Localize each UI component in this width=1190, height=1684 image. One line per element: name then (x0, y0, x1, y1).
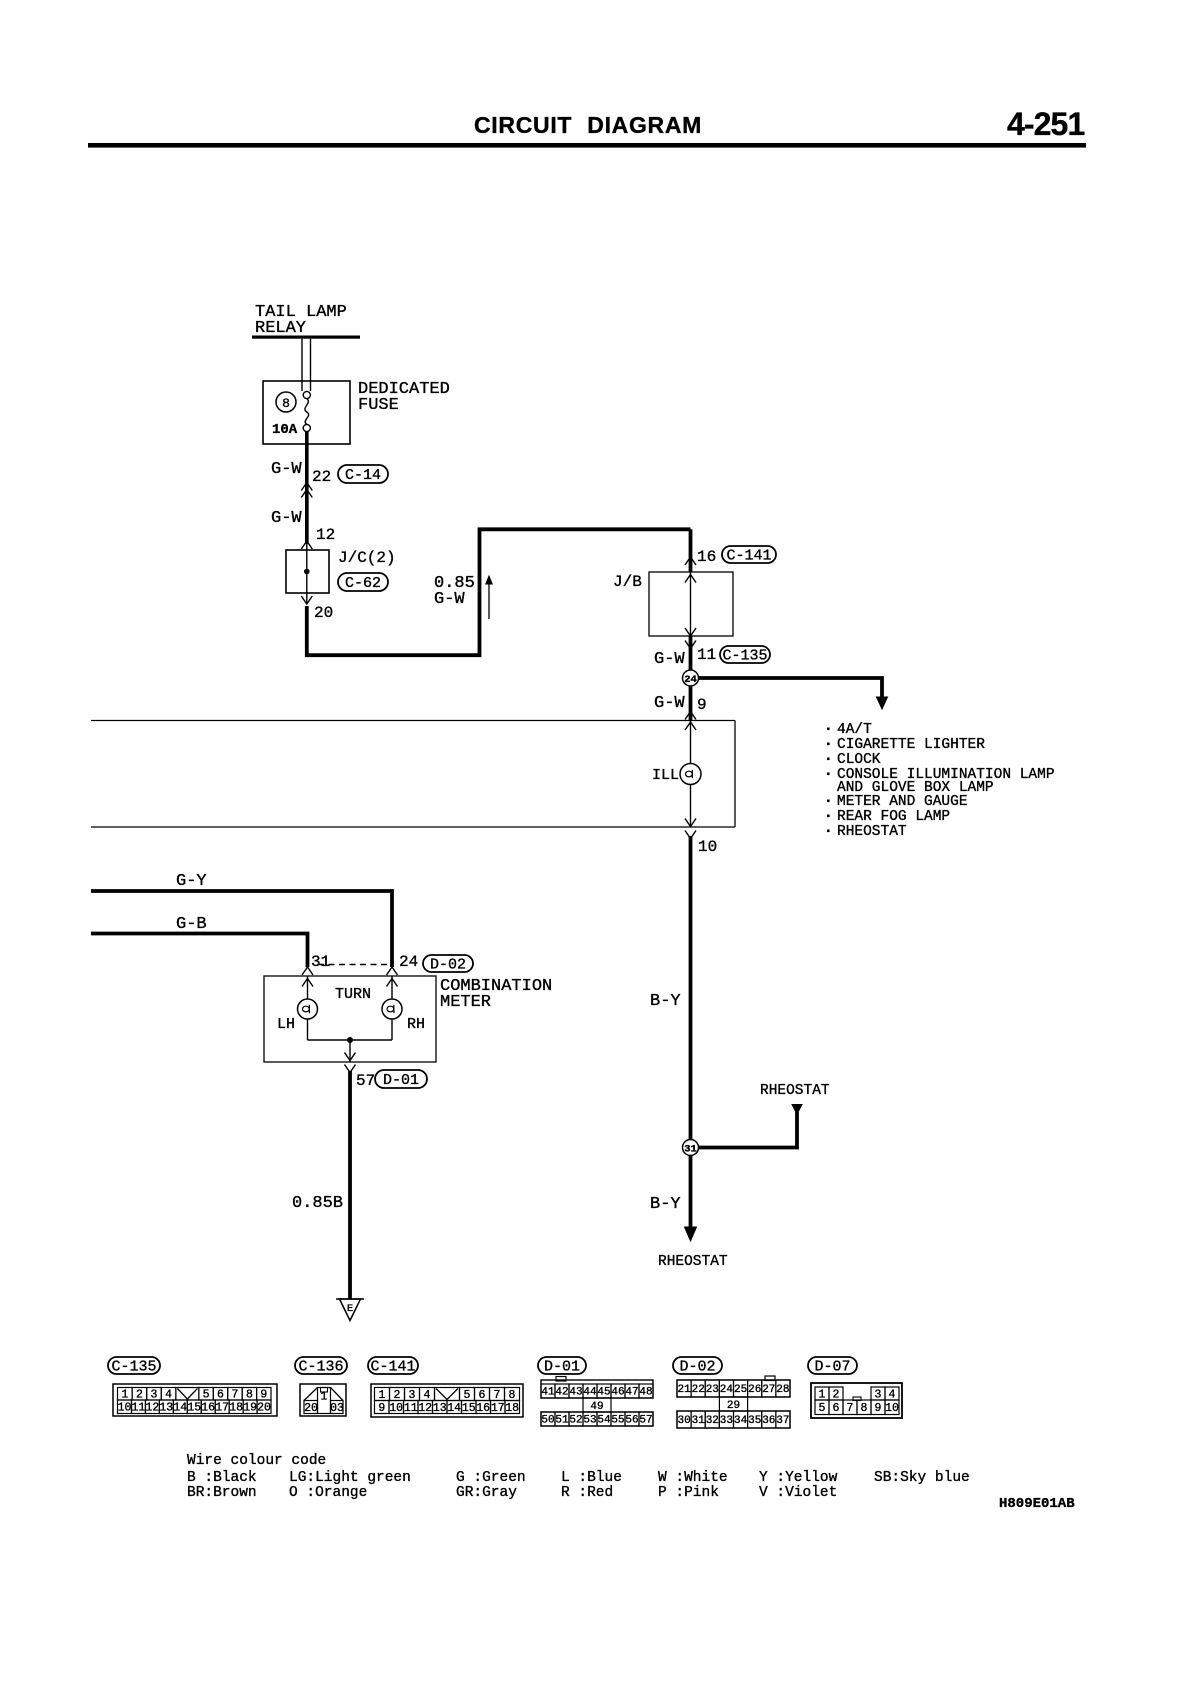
connector D-01 (375, 1070, 427, 1089)
svg-text:8: 8 (861, 1402, 868, 1415)
svg-text:27: 27 (762, 1384, 775, 1396)
svg-text:22: 22 (692, 1384, 705, 1396)
chevrons out of box pin 10 (685, 819, 696, 839)
connector C-135 label (108, 1357, 160, 1376)
svg-text:20: 20 (257, 1402, 271, 1415)
arrow to rheostat (685, 1227, 697, 1241)
lamp ILL (680, 764, 701, 785)
lamp TURN LH (298, 999, 318, 1019)
svg-text:21: 21 (677, 1384, 691, 1396)
wire through box (690, 721, 692, 828)
svg-text:42: 42 (555, 1387, 568, 1399)
svg-text:C-141: C-141 (370, 1359, 415, 1376)
dashed connector line (318, 964, 389, 966)
wire colour code legend (187, 1453, 970, 1501)
svg-text:31: 31 (311, 953, 330, 971)
svg-text:B-Y: B-Y (650, 992, 681, 1011)
connector C-135 (720, 646, 770, 665)
connector C-136 label (295, 1357, 347, 1376)
pin 22 (312, 468, 331, 486)
label 0.85 G-W (434, 574, 475, 609)
svg-text:22: 22 (312, 468, 331, 486)
svg-text:51: 51 (555, 1415, 569, 1427)
svg-text:G-B: G-B (176, 915, 207, 934)
svg-text:54: 54 (597, 1415, 611, 1427)
svg-text:31: 31 (692, 1415, 706, 1427)
svg-text:METER: METER (440, 993, 491, 1012)
pin 24 (399, 953, 418, 971)
svg-text:0.85B: 0.85B (292, 1194, 343, 1213)
svg-text:J/B: J/B (613, 573, 642, 591)
svg-text:G-W: G-W (654, 650, 685, 669)
svg-text:D-01: D-01 (383, 1072, 419, 1089)
svg-text:12: 12 (316, 526, 335, 544)
svg-text:10: 10 (118, 1402, 132, 1415)
svg-text:1: 1 (321, 1391, 328, 1404)
svg-text:D-01: D-01 (544, 1359, 580, 1376)
connector D-02 (423, 955, 473, 974)
label RHEOSTAT (658, 1254, 728, 1270)
label J/C(2) (338, 549, 396, 567)
svg-text:B-Y: B-Y (650, 1195, 681, 1214)
combination meter box (264, 976, 436, 1062)
svg-text:GR:Gray: GR:Gray (456, 1485, 517, 1501)
label G-W (654, 694, 685, 713)
ground E (336, 1299, 364, 1321)
svg-text:L :Blue: L :Blue (561, 1470, 622, 1486)
svg-text:17: 17 (491, 1402, 505, 1415)
accessory destination list (827, 722, 1055, 840)
svg-text:24: 24 (684, 674, 697, 686)
pin 9 (697, 696, 707, 714)
label ILL (652, 767, 679, 784)
connector C-141 (722, 546, 776, 565)
svg-text:26: 26 (748, 1384, 761, 1396)
svg-text:34: 34 (734, 1415, 748, 1427)
label G-W (654, 650, 685, 669)
svg-text:7: 7 (847, 1402, 854, 1415)
svg-text:REAR FOG LAMP: REAR FOG LAMP (837, 809, 950, 825)
wire B-Y down to node 31 (689, 836, 693, 1140)
svg-text:O :Orange: O :Orange (289, 1485, 367, 1501)
svg-text:15: 15 (462, 1402, 476, 1415)
chevrons into combination meter (302, 967, 398, 987)
connector C-62 (338, 573, 388, 592)
svg-text:47: 47 (625, 1387, 638, 1399)
svg-text:18: 18 (505, 1402, 519, 1415)
label B-Y (650, 1195, 681, 1214)
connector C-141 label (368, 1357, 418, 1376)
svg-text:35: 35 (748, 1415, 761, 1427)
svg-text:12: 12 (418, 1402, 432, 1415)
svg-text:C-135: C-135 (111, 1359, 156, 1376)
svg-text:G-W: G-W (271, 509, 302, 528)
svg-text:CIGARETTE LIGHTER: CIGARETTE LIGHTER (837, 737, 985, 753)
drawing code (999, 1496, 1075, 1512)
svg-text:10: 10 (389, 1402, 403, 1415)
wire G-W to J/C pin 12 (305, 497, 309, 544)
svg-text:12: 12 (145, 1402, 159, 1415)
svg-text:17: 17 (215, 1402, 229, 1415)
svg-text:46: 46 (611, 1387, 624, 1399)
connector D-02 pinout (677, 1376, 790, 1428)
label J/B (613, 573, 642, 591)
header rule (88, 143, 1086, 148)
connector C-141 pinout (371, 1384, 523, 1417)
svg-text:03: 03 (330, 1402, 344, 1415)
svg-text:G-W: G-W (434, 590, 465, 609)
pin 57 (356, 1072, 375, 1090)
svg-text:28: 28 (776, 1384, 789, 1396)
svg-text:16: 16 (697, 548, 716, 566)
svg-text:RHEOSTAT: RHEOSTAT (658, 1254, 728, 1270)
svg-text:TURN: TURN (335, 986, 371, 1003)
svg-text:8: 8 (282, 396, 290, 411)
svg-text:11: 11 (404, 1402, 418, 1415)
svg-text:36: 36 (762, 1415, 775, 1427)
svg-text:52: 52 (569, 1415, 582, 1427)
illumination lamps box (91, 721, 735, 828)
chevron into J/C (301, 541, 312, 550)
label RHEOSTAT (branch) (760, 1083, 830, 1099)
svg-text:D-02: D-02 (430, 957, 466, 974)
svg-text:ILL: ILL (652, 767, 679, 784)
svg-text:43: 43 (569, 1387, 582, 1399)
svg-text:16: 16 (201, 1402, 215, 1415)
svg-text:24: 24 (720, 1384, 734, 1396)
connector D-07 label (808, 1357, 857, 1376)
svg-text:49: 49 (590, 1401, 603, 1413)
svg-text:31: 31 (684, 1144, 697, 1156)
svg-text:R :Red: R :Red (561, 1485, 613, 1501)
svg-text:C-14: C-14 (345, 467, 381, 484)
wire 0.85B to ground (348, 1071, 352, 1299)
svg-text:Wire colour code: Wire colour code (187, 1453, 326, 1469)
label COMBINATION METER (440, 977, 552, 1012)
svg-text:44: 44 (583, 1387, 597, 1399)
svg-text:25: 25 (734, 1384, 747, 1396)
label RH (407, 1016, 425, 1033)
svg-text:G-W: G-W (271, 460, 302, 479)
svg-text:20: 20 (314, 604, 333, 622)
connector D-01 label (538, 1357, 586, 1376)
svg-text:CLOCK: CLOCK (837, 752, 881, 768)
svg-text:G-Y: G-Y (176, 872, 207, 891)
node TAIL LAMP RELAY (252, 303, 360, 339)
label G-W (271, 509, 302, 528)
pin 11 (697, 646, 716, 664)
svg-text:RHEOSTAT: RHEOSTAT (760, 1083, 830, 1099)
connector D-01 pinout (541, 1377, 653, 1427)
svg-text:15: 15 (187, 1402, 201, 1415)
page title (474, 112, 702, 138)
svg-text:19: 19 (243, 1402, 257, 1415)
svg-text:20: 20 (304, 1402, 318, 1415)
svg-text:48: 48 (639, 1387, 652, 1399)
svg-text:41: 41 (541, 1387, 555, 1399)
connector D-07 pinout (811, 1383, 902, 1418)
svg-text:30: 30 (677, 1415, 690, 1427)
svg-text:33: 33 (720, 1415, 733, 1427)
lamp common wire and junction (308, 1037, 393, 1062)
svg-text:METER AND GAUGE: METER AND GAUGE (837, 794, 968, 810)
svg-text:11: 11 (131, 1402, 145, 1415)
svg-text:56: 56 (625, 1415, 638, 1427)
svg-text:P :Pink: P :Pink (658, 1485, 719, 1501)
svg-text:10: 10 (885, 1402, 899, 1415)
pin 10 (698, 838, 717, 856)
svg-text:37: 37 (776, 1415, 789, 1427)
svg-text:FUSE: FUSE (358, 396, 399, 415)
wire 0.85 G-W routed to J/B (307, 529, 691, 655)
svg-text:RELAY: RELAY (255, 319, 306, 338)
svg-text:E: E (347, 1303, 353, 1315)
svg-text:10A: 10A (272, 422, 298, 438)
svg-text:18: 18 (229, 1402, 243, 1415)
lamp TURN RH (382, 999, 402, 1019)
svg-text:6: 6 (833, 1402, 840, 1415)
wire to RH lamp (391, 976, 393, 1040)
label 0.85B (292, 1194, 343, 1213)
svg-text:Y :Yellow: Y :Yellow (759, 1470, 838, 1486)
svg-text:D-07: D-07 (814, 1359, 850, 1376)
svg-text:14: 14 (447, 1402, 461, 1415)
pin 12 (316, 526, 335, 544)
svg-text:4-251: 4-251 (1007, 106, 1084, 142)
pin 20 (314, 604, 333, 622)
label LH (277, 1016, 295, 1033)
label B-Y (650, 992, 681, 1011)
svg-text:LH: LH (277, 1016, 295, 1033)
svg-text:10: 10 (698, 838, 717, 856)
fuse 10A DEDICATED FUSE (263, 381, 350, 444)
wire to LH lamp (307, 976, 309, 1040)
svg-text:50: 50 (541, 1415, 554, 1427)
svg-text:16: 16 (476, 1402, 490, 1415)
svg-text:4A/T: 4A/T (837, 722, 872, 738)
svg-text:5: 5 (819, 1402, 826, 1415)
svg-text:55: 55 (611, 1415, 624, 1427)
label DEDICATED FUSE (358, 380, 450, 415)
wire into J/B pin 16 (685, 529, 696, 572)
svg-text:C-135: C-135 (722, 648, 767, 665)
label G-Y (176, 872, 207, 891)
chevrons into illumination box (685, 712, 696, 731)
svg-text:29: 29 (727, 1400, 740, 1412)
svg-text:C-141: C-141 (726, 548, 771, 565)
label G-W (271, 460, 302, 479)
svg-text:11: 11 (697, 646, 716, 664)
label G-B (176, 915, 207, 934)
chevron out of J/C pin 20 (301, 593, 312, 604)
svg-text:23: 23 (706, 1384, 719, 1396)
svg-text:57: 57 (356, 1072, 375, 1090)
direction arrow (486, 576, 492, 619)
svg-text:G :Green: G :Green (456, 1470, 526, 1486)
chevron out pin 57 (345, 1065, 356, 1073)
svg-text:B :Black: B :Black (187, 1470, 257, 1486)
svg-text:RH: RH (407, 1016, 425, 1033)
svg-text:BR:Brown: BR:Brown (187, 1485, 257, 1501)
connector C-14 (338, 465, 388, 484)
page number (1007, 106, 1084, 142)
svg-text:G-W: G-W (654, 694, 685, 713)
svg-text:C-136: C-136 (298, 1359, 343, 1376)
junction chevrons C-14 (301, 483, 312, 498)
wire G-B (91, 934, 308, 968)
svg-text:J/C(2): J/C(2) (338, 549, 396, 567)
svg-text:24: 24 (399, 953, 418, 971)
svg-text:W :White: W :White (658, 1470, 728, 1486)
connector D-02 label (673, 1357, 722, 1376)
pin 31 (311, 953, 330, 971)
svg-text:H809E01AB: H809E01AB (999, 1496, 1075, 1512)
label TURN (335, 986, 371, 1003)
svg-text:D-02: D-02 (679, 1359, 715, 1376)
wire G-W fuse to C-14 pin 22 (305, 432, 309, 542)
svg-text:SB:Sky blue: SB:Sky blue (874, 1470, 970, 1486)
connector C-135 pinout (113, 1384, 277, 1416)
svg-text:LG:Light green: LG:Light green (289, 1470, 411, 1486)
svg-text:53: 53 (583, 1415, 596, 1427)
junction connector J/C(2) C-62 (286, 550, 329, 593)
svg-text:CIRCUIT DIAGRAM: CIRCUIT DIAGRAM (474, 112, 702, 138)
wire branch from RHEOSTAT to node 31 (698, 1105, 802, 1148)
junction block J/B (649, 572, 733, 636)
svg-text:13: 13 (159, 1402, 173, 1415)
pin 16 (697, 548, 716, 566)
node 24 (splice) (683, 670, 699, 721)
wire J/B to node 24 pin 11 (685, 636, 696, 670)
svg-text:V :Violet: V :Violet (759, 1485, 837, 1501)
svg-text:57: 57 (639, 1415, 652, 1427)
svg-text:45: 45 (597, 1387, 610, 1399)
connector C-136 pinout (300, 1384, 346, 1416)
svg-text:C-62: C-62 (345, 575, 381, 592)
svg-text:14: 14 (173, 1402, 187, 1415)
svg-text:32: 32 (706, 1415, 719, 1427)
svg-text:RHEOSTAT: RHEOSTAT (837, 824, 907, 840)
node 31 (splice) (683, 1140, 699, 1229)
wire G-Y (91, 891, 392, 967)
svg-text:9: 9 (875, 1402, 882, 1415)
svg-text:13: 13 (433, 1402, 447, 1415)
svg-text:9: 9 (378, 1402, 385, 1415)
wire relay to fuse (double conductor) (302, 339, 311, 391)
wire branch from node 24 to accessories (697, 678, 888, 709)
svg-text:9: 9 (697, 696, 707, 714)
